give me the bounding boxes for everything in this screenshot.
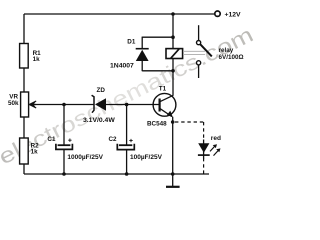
wire left rail [23,14,25,174]
capacitor C1 [47,105,103,175]
node D1 top [171,35,175,39]
wire top rail [24,13,215,15]
svg-text:BC548: BC548 [147,121,167,128]
relay contact top [197,25,212,56]
relay linkage lines [183,51,205,54]
diode D1 1N4007 [110,37,149,72]
wire D1 bottom link [142,70,173,72]
wire dashed LED top [203,122,205,141]
node rail C2 [125,172,129,176]
svg-text:red: red [211,135,221,142]
svg-text:100µF/25V: 100µF/25V [130,154,163,161]
resistor R1 [20,44,42,69]
svg-text:1N4007: 1N4007 [110,63,134,70]
node D1 bottom [171,69,175,73]
wire D1 top link [142,36,173,38]
svg-text:6V/100Ω: 6V/100Ω [219,54,244,61]
svg-text:+12V: +12V [225,12,242,19]
zener diode ZD [83,87,115,124]
relay coil [166,49,183,59]
wire relay branch [172,14,174,96]
node ground junction [171,172,175,176]
svg-text:C1: C1 [47,136,56,143]
wire zener to base [106,104,159,106]
transistor T1 BC548 [147,86,176,128]
node rail C1 [62,172,66,176]
potentiometer VR 50k [8,92,36,117]
node C1 junction [62,103,66,107]
ground [166,174,180,187]
svg-text:D1: D1 [127,39,136,46]
node C2 junction [125,103,129,107]
wire bottom rail [24,173,209,175]
wire dashed LED bottom [203,158,205,174]
resistor R2 [20,138,40,164]
terminal +12V [215,11,241,19]
svg-text:3.1V/0.4W: 3.1V/0.4W [83,117,115,124]
capacitor C2 [109,105,163,175]
svg-text:1k: 1k [31,149,39,156]
LED red [198,135,221,158]
svg-text:1000µF/25V: 1000µF/25V [67,154,103,161]
wire dashed emitter to LED [175,121,204,123]
wire wiper to zener [34,104,94,106]
svg-text:T1: T1 [159,86,167,93]
node top junction [171,12,175,16]
relay contact bottom [197,61,201,78]
svg-text:ZD: ZD [97,87,106,94]
label relay value [219,47,244,61]
svg-text:1k: 1k [33,56,41,63]
svg-text:50k: 50k [8,100,19,107]
wire emitter to ground rail [172,122,174,174]
svg-text:C2: C2 [109,136,118,143]
node emitter [171,120,175,124]
